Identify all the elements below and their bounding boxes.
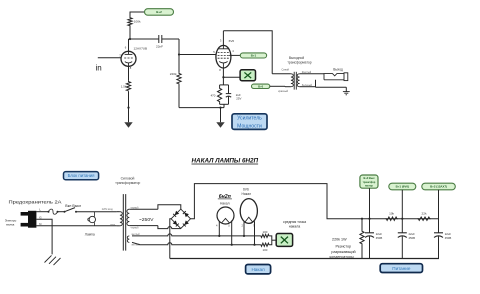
svg-text:красный: красный (278, 90, 288, 93)
svg-text:Накал: Накал (220, 202, 230, 206)
svg-text:~250V: ~250V (139, 217, 154, 222)
svg-text:трансформатор: трансформатор (287, 60, 311, 64)
svg-text:черный: черный (131, 206, 140, 209)
svg-text:100: 100 (262, 230, 267, 234)
svg-text:220k 1W: 220k 1W (332, 237, 347, 241)
svg-text:22k: 22k (422, 212, 427, 216)
svg-text:Питание: Питание (392, 266, 411, 271)
svg-text:Лампа: Лампа (85, 233, 95, 237)
svg-text:Вкл Выкл: Вкл Выкл (65, 204, 81, 208)
svg-text:черный: черный (131, 227, 140, 230)
svg-text:B+1: B+1 (251, 53, 257, 57)
svg-text:вход: вход (110, 224, 115, 226)
svg-text:конденсаторы: конденсаторы (329, 255, 354, 259)
svg-text:1.5k: 1.5k (121, 84, 127, 88)
svg-text:6V6: 6V6 (243, 187, 249, 191)
svg-text:450B: 450B (376, 236, 383, 240)
svg-text:Предохранитель 2А: Предохранитель 2А (9, 199, 62, 204)
svg-text:разряжающий: разряжающий (331, 250, 355, 254)
svg-text:Выход: Выход (333, 67, 343, 71)
svg-text:B+1 (6V6): B+1 (6V6) (396, 185, 409, 189)
svg-text:Усилитель: Усилитель (237, 116, 262, 122)
svg-text:НАКАЛ ЛАМПЫ 6Н2П: НАКАЛ ЛАМПЫ 6Н2П (192, 158, 259, 165)
svg-text:матор: матор (365, 185, 373, 188)
svg-text:Силовой: Силовой (121, 176, 135, 180)
svg-text:B+2: B+2 (156, 10, 162, 14)
svg-text:10k: 10k (389, 212, 394, 216)
svg-text:Накал: Накал (251, 267, 265, 272)
svg-text:B+0 Вых: B+0 Вых (363, 176, 375, 180)
svg-text:накала: накала (289, 225, 300, 229)
svg-text:220V вход: 220V вход (102, 209, 114, 211)
svg-text:Накал: Накал (242, 192, 252, 196)
svg-text:Желтый: Желтый (302, 71, 312, 74)
svg-text:средняя точка: средняя точка (283, 220, 306, 224)
svg-text:Блок питания: Блок питания (68, 173, 96, 178)
svg-text:25V: 25V (236, 97, 241, 101)
svg-text:Резистор: Резистор (335, 244, 351, 248)
svg-text:B+2 (12AX7): B+2 (12AX7) (430, 185, 447, 189)
svg-text:трансформатор: трансформатор (115, 181, 140, 185)
svg-text:100k: 100k (134, 20, 141, 24)
svg-text:450B: 450B (445, 236, 452, 240)
svg-text:вилка: вилка (6, 223, 14, 227)
svg-text:Мощности: Мощности (237, 123, 262, 129)
svg-text:100: 100 (262, 248, 267, 252)
svg-text:450B: 450B (409, 236, 416, 240)
svg-text:in: in (96, 63, 102, 72)
svg-text:22nF: 22nF (156, 45, 163, 49)
svg-text:B+0: B+0 (258, 84, 264, 88)
svg-text:470: 470 (211, 94, 216, 98)
svg-text:6V6: 6V6 (229, 39, 235, 43)
svg-text:трансфор: трансфор (363, 180, 376, 184)
svg-text:Синий: Синий (282, 69, 290, 72)
svg-text:220k: 220k (170, 72, 177, 76)
svg-text:12AX7UB: 12AX7UB (134, 46, 148, 50)
